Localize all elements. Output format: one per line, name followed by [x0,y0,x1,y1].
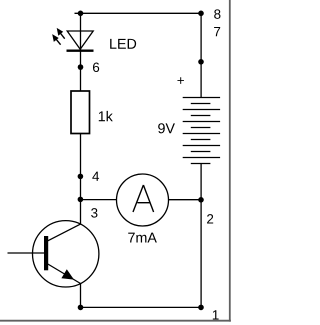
wire: right rail upper (node 8 to battery +) [200,13,202,97]
label node 3 [91,208,97,217]
resistor R1 1k body [71,91,90,134]
wire: top rail from node above LED to node 8 [75,12,202,14]
label node 6 [93,63,99,72]
node 3 junction [78,197,84,203]
LED light arrow lower [52,34,60,45]
LED light arrow upper [57,28,65,39]
label node 1 [213,310,219,319]
transistor emitter arrowhead [61,269,74,279]
frame border right [229,0,231,322]
node 7 junction [198,59,204,65]
node junction bottom-left (emitter) [78,305,84,311]
frame border bottom [0,320,231,322]
wire: left column from top rail down through LED to resistor top [80,13,82,91]
label node 4 [92,172,99,181]
label LED [110,39,136,49]
node 6 junction [78,64,84,70]
battery B1 9V plates [183,98,220,164]
wire: resistor bottom to node 3 [80,134,82,200]
node 8 junction [198,11,204,17]
transistor emitter line [48,264,81,284]
ammeter M1 circle [117,174,169,226]
node 4 junction [78,174,84,180]
LED D1: triangle [67,31,93,49]
wire: node 3 down to transistor collector entry [80,199,82,224]
transistor collector line [48,224,81,241]
wire: base lead [8,252,45,254]
node 1 junction [198,305,204,311]
LED D1: cathode bar [67,50,94,52]
label 9V [158,123,175,133]
wire: ammeter right terminal to node 2 [168,199,201,201]
label node 7 [214,27,220,36]
wire: bottom rail [81,306,202,308]
wire: node 3 to ammeter left terminal [81,199,117,201]
transistor Q1 circle [32,221,98,287]
label 7mA [128,233,157,243]
transistor Q1 base bar [44,236,48,270]
wire: emitter to bottom rail [80,284,82,308]
node 2 junction [198,197,204,203]
label 1k [99,111,113,121]
label node 2 [207,214,213,223]
node junction: top-left (above LED) [78,11,84,17]
label node 8 [214,9,220,18]
ammeter letter A [133,185,154,212]
label + polarity [177,77,184,84]
wire: right rail lower (battery - to node 1) [200,164,202,308]
